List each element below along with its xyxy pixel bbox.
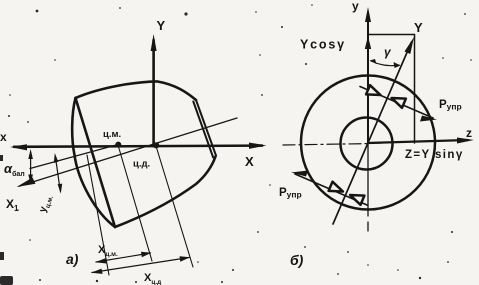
y_c.m. offset double arrow — [55, 156, 60, 191]
projection rectangle right side — [414, 35, 416, 144]
z axis — [368, 140, 468, 143]
svg-text:X: X — [245, 154, 254, 169]
arrowhead Y vector — [405, 37, 415, 54]
projection rectangle top — [368, 34, 415, 36]
svg-text:Y: Y — [157, 18, 166, 33]
arrowhead Ycos on y axis — [365, 36, 371, 49]
Y vector line through center — [333, 42, 412, 224]
svg-text:X1: X1 — [6, 197, 19, 213]
arrowhead z axis — [457, 138, 474, 144]
body base line — [76, 98, 116, 227]
nozzle triangle upper-left — [366, 85, 382, 99]
extension line from base — [87, 155, 109, 275]
body nose bottom curve — [115, 157, 216, 228]
arrowhead P upr upper — [420, 116, 437, 122]
point c.d. — [153, 142, 159, 148]
svg-text:y: y — [352, 0, 359, 13]
svg-text:б): б) — [290, 252, 304, 268]
arrowhead Y up — [151, 34, 157, 51]
svg-text:γ: γ — [384, 45, 392, 59]
y axis — [367, 14, 369, 144]
svg-text:z: z — [466, 126, 472, 140]
P upr arrow line upper — [360, 87, 433, 119]
extension line through c.d. — [156, 146, 193, 267]
dimension line X_c.m. — [96, 253, 151, 262]
Y axis — [152, 40, 155, 146]
inner circle — [341, 118, 393, 170]
gamma arc — [371, 61, 399, 66]
y_c.m. arrow heads — [54, 153, 59, 163]
svg-text:Рупр: Рупр — [279, 187, 302, 200]
svg-text:Xц.д: Xц.д — [144, 272, 161, 285]
arrowhead x left — [10, 144, 27, 150]
line through c.m. parallel to X1 — [30, 145, 118, 169]
nozzle triangle lower-right — [348, 190, 364, 204]
axis X1 — [19, 118, 237, 186]
svg-text:ц.м.: ц.м. — [103, 129, 121, 140]
svg-text:а): а) — [66, 251, 79, 267]
svg-text:αбал: αбал — [4, 161, 25, 178]
svg-text:Ycosγ: Ycosγ — [300, 38, 346, 52]
extension line through c.m. — [118, 145, 152, 261]
body nose skirt double line — [193, 100, 216, 158]
dim X_c.d. arrowheads — [91, 269, 103, 274]
arrowhead X1 — [17, 178, 36, 188]
nozzle triangle upper-right — [390, 93, 406, 107]
svg-text:Z=Y sinγ: Z=Y sinγ — [405, 149, 464, 161]
alpha_bal angle double arrow — [30, 152, 32, 182]
svg-text:x: x — [0, 130, 7, 144]
point c.m. — [115, 142, 121, 148]
y axis lower — [367, 144, 369, 232]
P upr arrow line lower — [295, 174, 367, 205]
alpha arrow heads — [28, 149, 33, 159]
dim X_c.m. arrowheads — [95, 258, 107, 263]
dash-dot axis to the left — [283, 144, 368, 145]
svg-text:уц.м.: уц.м. — [37, 193, 55, 214]
body left rim — [72, 98, 115, 227]
svg-text:Y: Y — [414, 20, 423, 35]
gamma arc arrowheads — [370, 59, 377, 64]
X axis — [14, 146, 262, 147]
svg-text:Рупр: Рупр — [439, 99, 462, 112]
arrowhead X right — [249, 143, 267, 149]
arrowhead y axis top — [365, 7, 371, 22]
body top edge — [76, 81, 197, 100]
svg-text:Xц.м.: Xц.м. — [98, 244, 118, 258]
arrowhead P upr lower — [291, 171, 308, 177]
nozzle triangle lower-left — [329, 182, 345, 196]
svg-text:ц.д.: ц.д. — [133, 159, 150, 170]
dimension line X_c.d. — [92, 258, 189, 273]
outer circle — [301, 76, 435, 210]
